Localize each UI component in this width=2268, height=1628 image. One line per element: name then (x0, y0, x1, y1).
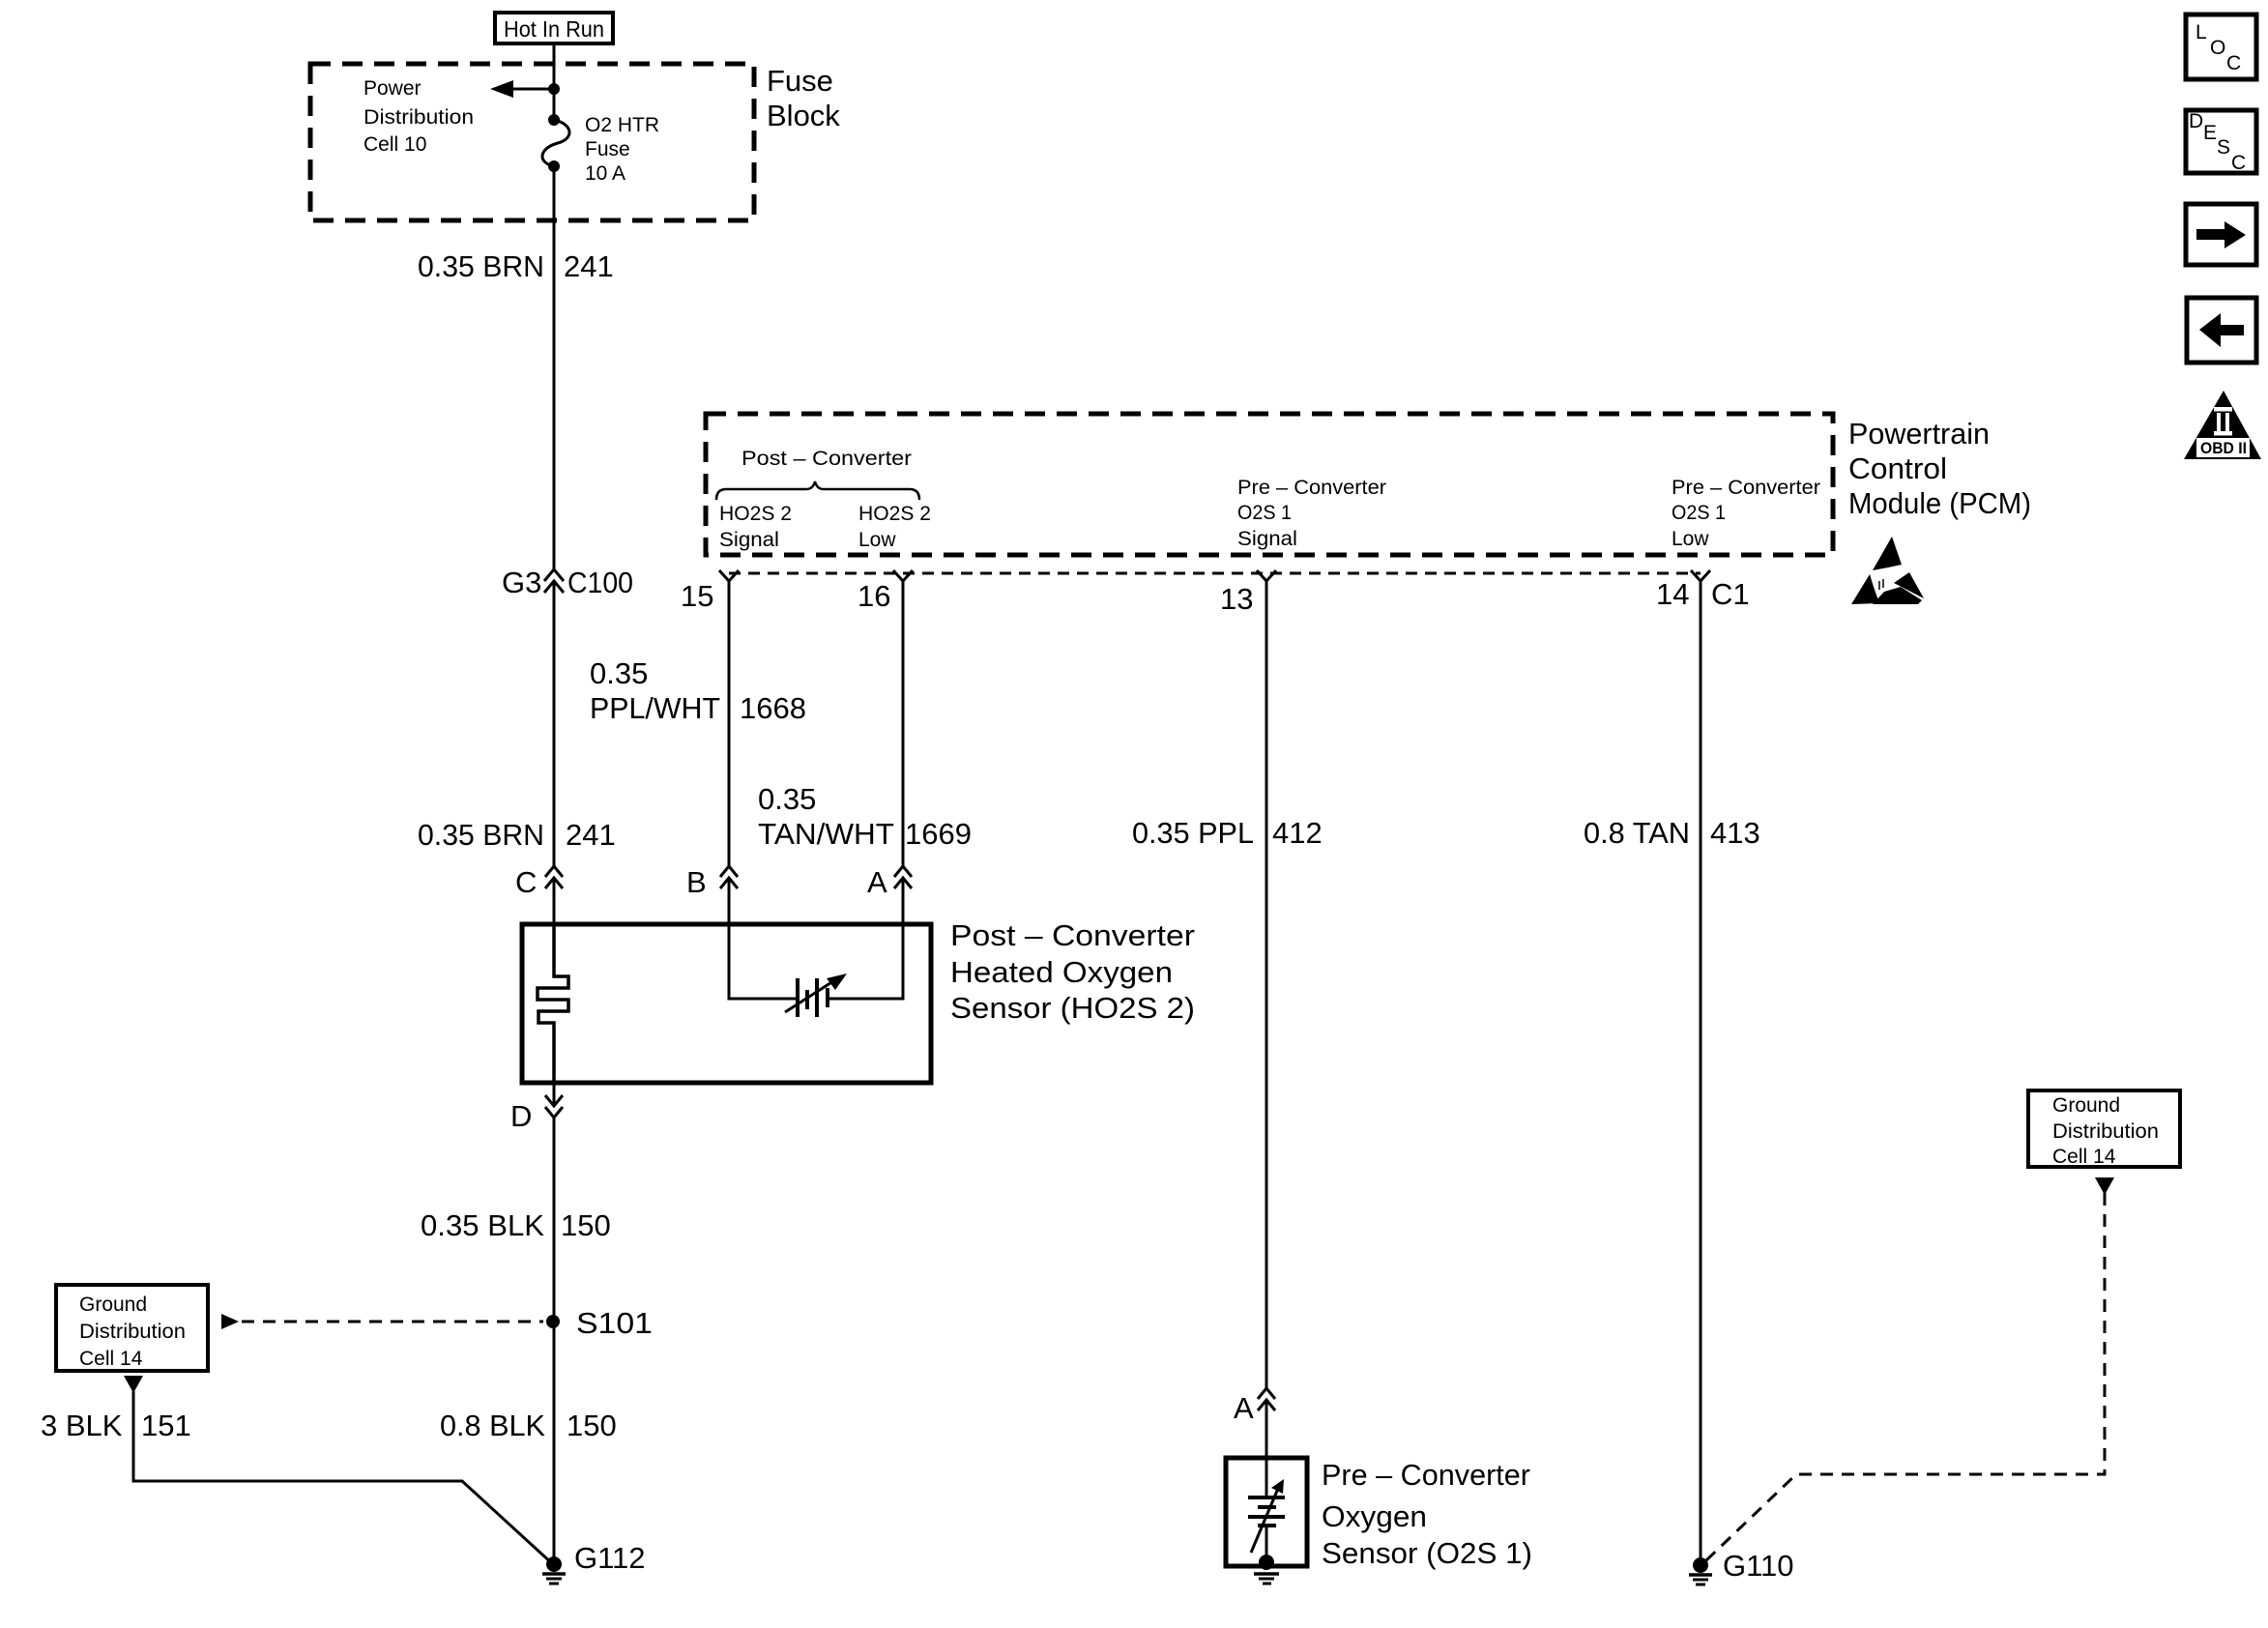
svg-text:TAN/WHT: TAN/WHT (758, 817, 894, 851)
wire circuit 150 (HO2S2 pin D to S101 to G112) (553, 1083, 556, 1565)
pin 16 fork (858, 570, 913, 613)
connector A (O2S1 pin A) (1234, 1388, 1275, 1425)
svg-text:A: A (867, 865, 887, 899)
label 3 BLK 151 (41, 1409, 191, 1442)
svg-text:PPL/WHT: PPL/WHT (590, 691, 720, 725)
icon back arrow (2187, 298, 2256, 363)
svg-text:0.35: 0.35 (590, 656, 648, 690)
icon OBD II triangle (2184, 391, 2261, 459)
fuse block dashed box (310, 64, 754, 220)
svg-text:Post – Converter: Post – Converter (741, 448, 912, 470)
svg-text:O2 HTR: O2 HTR (585, 114, 659, 136)
label 0.35 BRN 241 (upper) (418, 249, 614, 283)
svg-text:D: D (510, 1099, 532, 1133)
svg-text:1669: 1669 (905, 817, 972, 851)
wire circuit 413 TAN (pin 14 down to G110) (1700, 581, 1702, 1565)
svg-text:Cell 14: Cell 14 (2052, 1146, 2116, 1168)
svg-text:Pre – Converter: Pre – Converter (1322, 1458, 1530, 1492)
arrow below right ground distribution box (2095, 1177, 2114, 1195)
HO2S2 sensor box (522, 924, 931, 1083)
svg-text:HO2S 2: HO2S 2 (858, 503, 931, 525)
ground G110 (1689, 1549, 1794, 1584)
svg-text:Signal: Signal (719, 529, 779, 551)
svg-text:C: C (2231, 152, 2246, 174)
svg-text:C100: C100 (567, 566, 633, 599)
svg-text:S101: S101 (576, 1306, 653, 1340)
svg-text:1668: 1668 (740, 691, 806, 725)
svg-text:Sensor (HO2S 2): Sensor (HO2S 2) (950, 991, 1195, 1025)
svg-text:O: O (2210, 37, 2225, 59)
sensing element inside O2S1 (1248, 1458, 1285, 1562)
svg-text:Block: Block (767, 99, 840, 132)
connector C (HO2S2 pin C) (515, 865, 563, 899)
label 0.35 TAN/WHT 1669 (758, 782, 972, 851)
heater element inside HO2S2 (538, 924, 568, 1083)
svg-text:10 A: 10 A (585, 162, 625, 185)
svg-text:C1: C1 (1711, 577, 1750, 611)
svg-text:Power: Power (363, 77, 422, 100)
svg-text:0.35 PPL: 0.35 PPL (1132, 816, 1254, 850)
label 0.35 PPL 412 (1132, 816, 1323, 850)
svg-text:150: 150 (561, 1208, 611, 1242)
svg-text:D: D (2189, 110, 2203, 132)
svg-text:0.35 BLK: 0.35 BLK (421, 1208, 544, 1242)
svg-text:0.8 BLK: 0.8 BLK (440, 1409, 545, 1442)
O2S1 sensor box (1226, 1458, 1307, 1566)
svg-text:Cell 10: Cell 10 (363, 133, 426, 156)
splice S101 (546, 1306, 653, 1340)
PCM dashed box (706, 414, 1833, 555)
pin label HO2S 2 Signal (719, 503, 792, 551)
label 0.8 BLK 150 (440, 1409, 617, 1442)
wire branch to power distribution (arrow left) (490, 80, 560, 98)
dashed reference from right ground distribution to G110 (1706, 1193, 2105, 1560)
connector D (HO2S2 pin D, chevrons down) (510, 1095, 563, 1133)
label 0.35 BRN 241 (lower) (418, 818, 616, 852)
svg-text:Module (PCM): Module (PCM) (1848, 486, 2031, 520)
svg-text:Heated Oxygen: Heated Oxygen (950, 955, 1173, 989)
svg-text:Distribution: Distribution (2052, 1120, 2159, 1143)
node Hot In Run (495, 13, 613, 44)
svg-text:0.35: 0.35 (758, 782, 816, 816)
svg-text:0.35 BRN: 0.35 BRN (418, 818, 544, 852)
svg-text:241: 241 (564, 249, 614, 283)
svg-text:13: 13 (1220, 582, 1253, 616)
label Power Distribution Cell 10 (363, 77, 474, 156)
svg-text:E: E (2203, 122, 2217, 144)
pin label Pre-Converter O2S 1 Signal (1237, 477, 1386, 550)
svg-text:Post – Converter: Post – Converter (950, 918, 1195, 952)
wire circuit 151 (3 BLK) (133, 1391, 554, 1565)
svg-text:Ground: Ground (79, 1294, 147, 1316)
label 0.35 BLK 150 (421, 1208, 611, 1242)
ESD warning symbol (1851, 537, 1924, 604)
arrow below left ground distribution box (124, 1376, 143, 1393)
pin label Pre-Converter O2S 1 Low (1672, 477, 1820, 550)
wire circuit 1668 PPL/WHT (pin 15 to sensor B) (728, 581, 731, 924)
svg-text:OBD II: OBD II (2200, 439, 2247, 457)
svg-text:G3: G3 (502, 566, 541, 599)
svg-text:Pre – Converter: Pre – Converter (1672, 477, 1820, 499)
svg-text:Ground: Ground (2052, 1094, 2120, 1117)
svg-text:G112: G112 (574, 1541, 646, 1575)
icon forward arrow (2186, 204, 2256, 265)
svg-text:O2S 1: O2S 1 (1672, 502, 1726, 524)
pin 14 fork and C1 label (1656, 570, 1750, 611)
svg-text:Low: Low (858, 529, 896, 551)
label Fuse Block (767, 64, 840, 132)
connector A (HO2S2 pin A) (867, 865, 912, 899)
svg-text:Powertrain: Powertrain (1848, 417, 1990, 451)
svg-text:412: 412 (1272, 816, 1323, 850)
icon LOC (2186, 15, 2256, 79)
svg-text:Hot In Run: Hot In Run (504, 16, 604, 42)
svg-text:Pre – Converter: Pre – Converter (1237, 477, 1386, 499)
svg-text:Low: Low (1672, 528, 1709, 550)
wire circuit 1669 TAN/WHT (pin 16 to sensor A) (902, 581, 905, 924)
pin 15 fork (681, 570, 739, 613)
svg-text:Distribution: Distribution (363, 106, 474, 129)
connector C1 face (fine dashed line) (729, 572, 1701, 575)
svg-text:HO2S 2: HO2S 2 (719, 503, 792, 525)
svg-text:S: S (2217, 136, 2230, 159)
dashed reference from S101 to ground distribution (221, 1314, 543, 1329)
svg-text:Sensor (O2S 1): Sensor (O2S 1) (1322, 1536, 1532, 1570)
ground G112 (542, 1541, 646, 1584)
wire from Hot In Run into fuse block (553, 44, 556, 120)
svg-text:150: 150 (567, 1409, 617, 1442)
label 0.35 PPL/WHT 1668 (590, 656, 806, 725)
icon DESC (2186, 110, 2256, 174)
wire circuit 412 PPL (pin 13 down) (1265, 581, 1268, 1458)
pin 13 fork (1220, 570, 1276, 616)
svg-text:151: 151 (141, 1409, 191, 1442)
fuse O2 HTR Fuse 10 A (542, 114, 659, 185)
svg-text:Cell 14: Cell 14 (79, 1348, 143, 1370)
label 0.8 TAN 413 (1584, 816, 1760, 850)
svg-text:A: A (1234, 1391, 1254, 1425)
svg-text:0.35 BRN: 0.35 BRN (418, 249, 544, 283)
label Pre-Converter Oxygen Sensor (O2S 1) (1322, 1458, 1532, 1570)
svg-text:G110: G110 (1723, 1549, 1794, 1583)
label Powertrain Control Module (PCM) (1848, 417, 2031, 520)
svg-text:14: 14 (1656, 577, 1689, 611)
svg-text:Control: Control (1848, 451, 1947, 485)
svg-text:B: B (686, 865, 707, 899)
pin label HO2S 2 Low (858, 503, 931, 551)
ground distribution cell 14 box (right) (2028, 1090, 2180, 1168)
svg-text:Oxygen: Oxygen (1322, 1499, 1427, 1533)
ground at O2S1 (1254, 1555, 1279, 1584)
sensing element inside HO2S2 (variable cell with arrow) (729, 924, 903, 1017)
ground distribution cell 14 box (left) (56, 1285, 208, 1371)
svg-text:241: 241 (566, 818, 616, 852)
connector B (HO2S2 pin B) (686, 865, 738, 899)
svg-text:O2S 1: O2S 1 (1237, 502, 1292, 524)
svg-text:Distribution: Distribution (79, 1321, 186, 1343)
svg-text:L: L (2195, 21, 2207, 44)
svg-text:0.8 TAN: 0.8 TAN (1584, 816, 1690, 850)
connector C100 G3 (in-line chevrons) (502, 566, 633, 599)
svg-text:C: C (515, 865, 537, 899)
svg-text:3 BLK: 3 BLK (41, 1409, 123, 1442)
label Post-Converter Heated Oxygen Sensor (HO2S 2) (950, 918, 1195, 1025)
svg-text:Signal: Signal (1237, 528, 1297, 550)
svg-text:Fuse: Fuse (585, 138, 630, 160)
svg-text:413: 413 (1710, 816, 1760, 850)
label Post-Converter (PCM pins) with brace (716, 448, 919, 500)
svg-text:15: 15 (681, 579, 713, 613)
svg-text:16: 16 (858, 579, 890, 613)
svg-text:C: C (2226, 52, 2241, 74)
wire circuit 241 (fuse to HO2S2 box) (553, 166, 556, 924)
svg-text:Fuse: Fuse (767, 64, 833, 98)
